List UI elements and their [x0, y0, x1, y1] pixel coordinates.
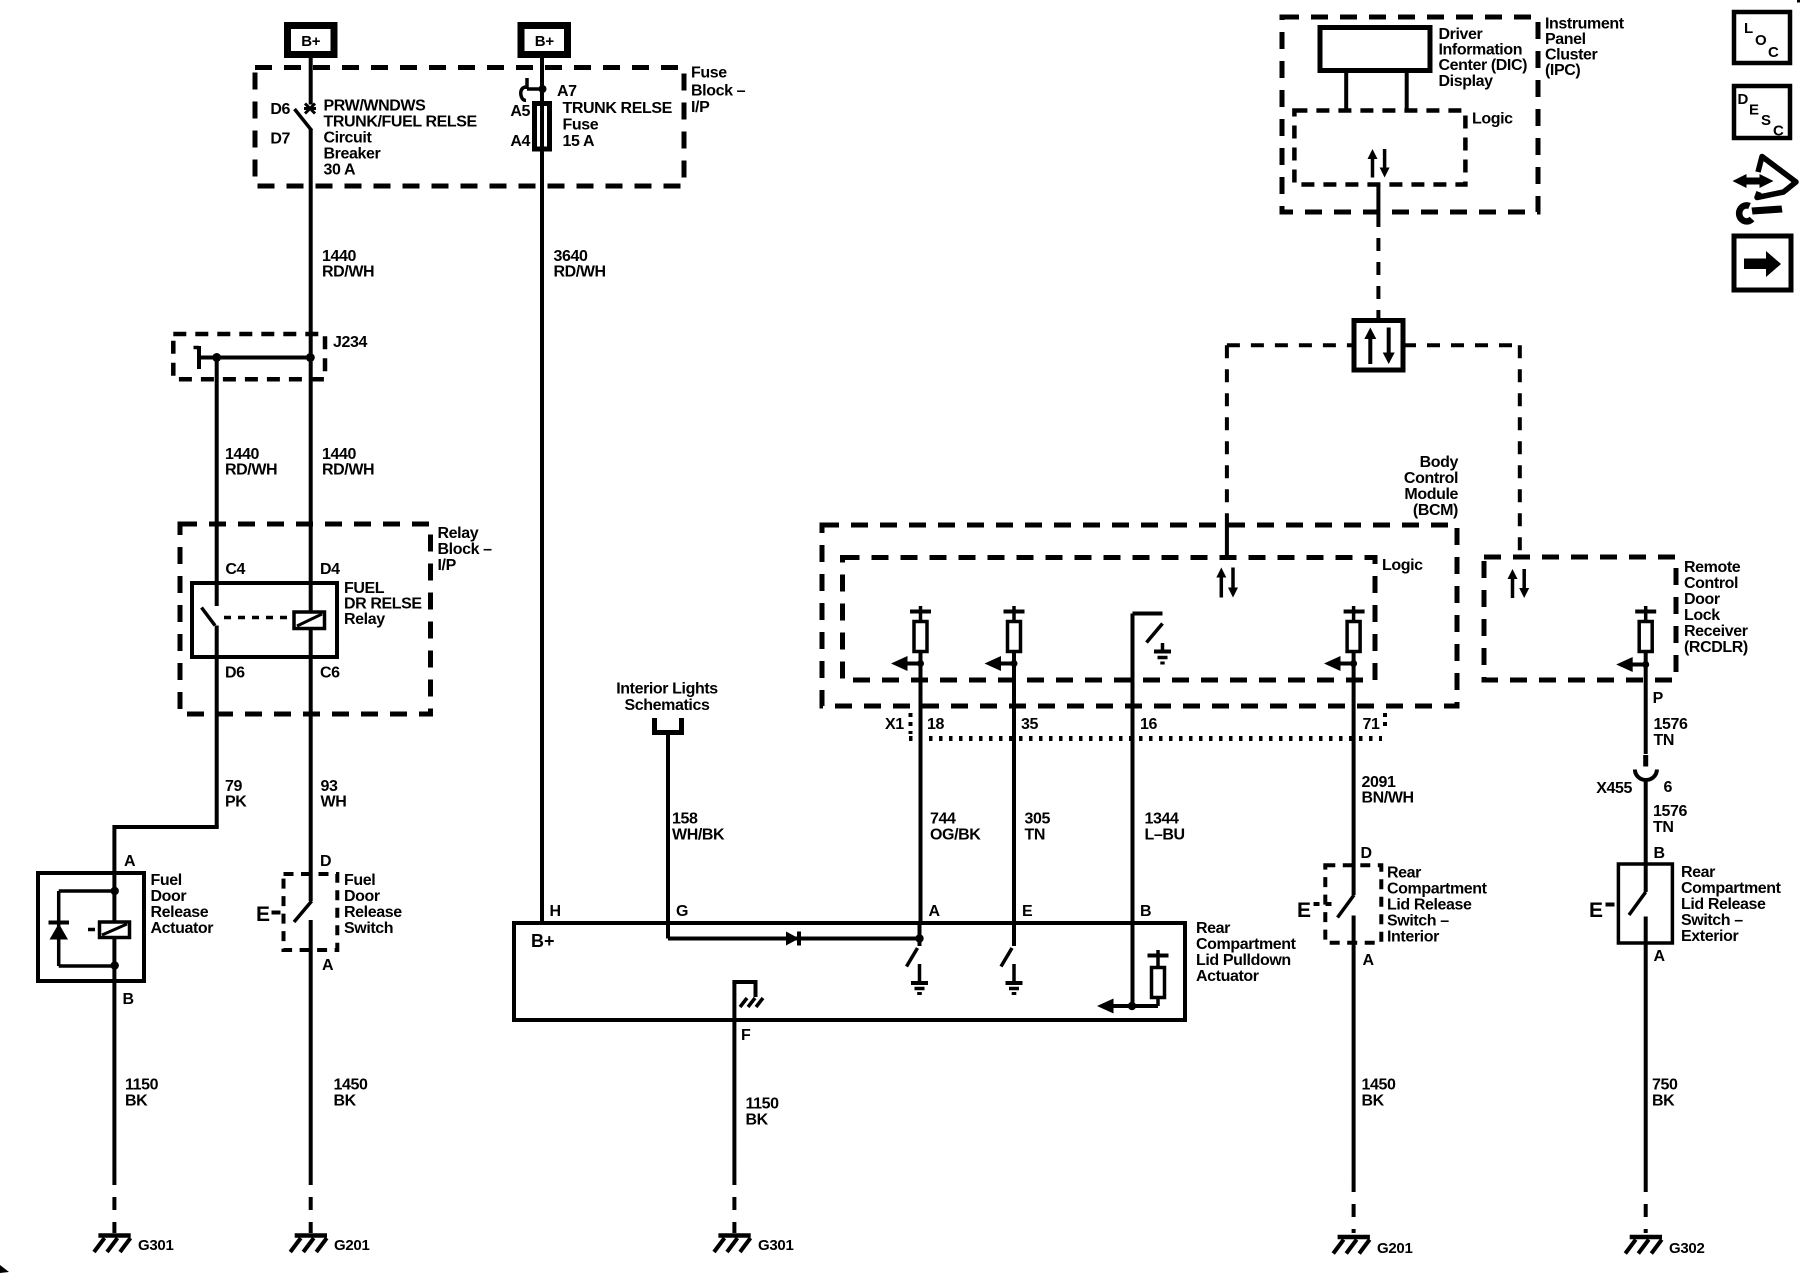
svg-text:1344: 1344 — [1145, 811, 1179, 828]
svg-text:Compartment: Compartment — [1196, 936, 1297, 953]
svg-text:PRW/WNDWS: PRW/WNDWS — [324, 98, 427, 115]
rear compartment lid pulldown actuator box — [514, 923, 1185, 1020]
internal switch A to ground — [907, 923, 929, 994]
BCM internal switch to ground pin 16 — [1133, 614, 1172, 664]
off-page bracket — [652, 718, 684, 733]
svg-text:Module: Module — [1404, 486, 1458, 503]
svg-text:RD/WH: RD/WH — [322, 264, 374, 281]
svg-text:BK: BK — [1362, 1093, 1385, 1110]
actuator coil — [88, 922, 130, 938]
svg-text:S: S — [1761, 112, 1771, 129]
svg-text:PK: PK — [225, 794, 247, 811]
svg-text:Remote: Remote — [1684, 559, 1741, 576]
svg-text:1150: 1150 — [125, 1077, 159, 1094]
svg-text:TRUNK/FUEL RELSE: TRUNK/FUEL RELSE — [324, 114, 478, 131]
svg-text:750: 750 — [1652, 1077, 1678, 1094]
svg-text:Door: Door — [151, 888, 187, 905]
svg-text:Fuel: Fuel — [344, 872, 375, 889]
svg-text:C4: C4 — [225, 561, 245, 578]
B+ power symbol (left) — [288, 26, 335, 55]
svg-text:Release: Release — [151, 904, 209, 921]
in-line connector X455 — [1635, 755, 1657, 864]
wire label 744 OG/BK — [930, 811, 981, 844]
svg-text:(BCM): (BCM) — [1413, 502, 1458, 519]
wire label 1440 RD/WH (left) — [225, 446, 277, 479]
switch E actuation — [1297, 899, 1332, 922]
svg-text:Schematics: Schematics — [625, 697, 710, 714]
svg-text:Center (DIC): Center (DIC) — [1439, 57, 1528, 74]
svg-text:Interior: Interior — [1387, 929, 1439, 946]
svg-text:B: B — [1140, 903, 1151, 920]
wire fuse down to pulldown actuator pin H — [540, 144, 544, 923]
svg-text:Circuit: Circuit — [324, 130, 373, 147]
svg-text:305: 305 — [1025, 811, 1051, 828]
wire label 3640 RD/WH — [554, 248, 606, 281]
BCM input arrow pin 71 — [1324, 656, 1357, 671]
dashed ground lead — [112, 1172, 116, 1233]
rear compartment lid release switch exterior box — [1618, 864, 1672, 943]
svg-text:Rear: Rear — [1387, 865, 1421, 882]
switch label exterior — [1681, 864, 1782, 945]
svg-text:Lid Release: Lid Release — [1387, 897, 1472, 914]
svg-text:A5: A5 — [510, 103, 530, 120]
wire label 1450 BK — [334, 1077, 368, 1110]
svg-text:G302: G302 — [1669, 1240, 1705, 1257]
connector X1 dotted line — [909, 736, 1382, 741]
svg-text:D: D — [320, 853, 331, 870]
wire label 93 WH — [321, 778, 347, 811]
svg-text:B+: B+ — [531, 931, 555, 951]
svg-text:Cluster: Cluster — [1545, 47, 1597, 64]
svg-text:Driver: Driver — [1439, 26, 1483, 43]
BCM pull-up resistor pin 71 — [1344, 606, 1365, 652]
BCM outer dashed box — [822, 525, 1457, 706]
label RCDLR — [1684, 559, 1748, 656]
svg-text:Switch –: Switch – — [1681, 912, 1743, 929]
svg-text:FUEL: FUEL — [344, 580, 385, 597]
svg-text:OG/BK: OG/BK — [930, 827, 981, 844]
wire RCDLR pin P down — [1644, 652, 1648, 755]
svg-text:D: D — [1738, 91, 1749, 108]
svg-text:A4: A4 — [510, 133, 530, 150]
svg-text:Panel: Panel — [1545, 31, 1586, 48]
svg-text:DR RELSE: DR RELSE — [344, 596, 422, 613]
svg-text:X455: X455 — [1596, 780, 1632, 797]
svg-text:G: G — [676, 903, 688, 920]
BCM logic dashed box — [843, 558, 1376, 681]
ground G201 (right) — [1333, 1237, 1412, 1257]
svg-text:Breaker: Breaker — [324, 146, 381, 163]
wire label 158 WH/BK — [672, 811, 725, 844]
svg-text:C6: C6 — [320, 665, 340, 682]
wire B+ to fuse — [540, 58, 544, 146]
svg-text:D: D — [1361, 845, 1372, 862]
wire BCM pin35 to actuator pin E — [1012, 652, 1016, 924]
wire label 1450 BK (right) — [1362, 1077, 1396, 1110]
ground G201 (left) — [290, 1236, 369, 1255]
wire bracket to actuator pin G — [666, 733, 670, 924]
actuator label — [1196, 920, 1297, 985]
IPC outer dashed box — [1282, 17, 1538, 212]
relay block I/P dashed box — [180, 524, 431, 714]
wire BCM pin18 to actuator pin A — [919, 652, 923, 924]
svg-text:Block –: Block – — [691, 83, 746, 100]
svg-text:D6: D6 — [270, 101, 290, 118]
svg-text:Lid Release: Lid Release — [1681, 896, 1766, 913]
svg-text:L: L — [1744, 20, 1753, 37]
label Relay Block - I/P — [438, 525, 493, 574]
B+ power symbol (middle) — [521, 26, 568, 55]
svg-text:TRUNK RELSE: TRUNK RELSE — [563, 100, 673, 117]
svg-text:Exterior: Exterior — [1681, 928, 1738, 945]
svg-text:A: A — [929, 903, 941, 920]
svg-text:Switch –: Switch – — [1387, 913, 1449, 930]
icon DESC box — [1734, 86, 1790, 140]
svg-text:Logic: Logic — [1472, 111, 1513, 128]
svg-text:BK: BK — [334, 1093, 357, 1110]
wire actuator F down — [732, 1020, 736, 1172]
switch E actuation — [1589, 899, 1615, 922]
ground G302 — [1625, 1237, 1704, 1257]
wire switch A down — [309, 920, 313, 1172]
svg-text:O: O — [1755, 32, 1767, 49]
circuit breaker PRW/WNDWS TRUNK/FUEL RELSE 30A — [295, 104, 317, 131]
svg-text:6: 6 — [1664, 779, 1673, 796]
fuel door release switch dashed box — [284, 874, 338, 950]
svg-text:G301: G301 — [758, 1237, 794, 1254]
svg-text:D6: D6 — [225, 665, 245, 682]
ground G301 (left) — [94, 1236, 174, 1255]
svg-text:I/P: I/P — [691, 99, 710, 116]
fuse TRUNK RELSE 15A — [535, 104, 550, 150]
svg-text:Rear: Rear — [1681, 864, 1715, 881]
svg-text:Display: Display — [1439, 73, 1494, 90]
svg-text:D7: D7 — [270, 131, 290, 148]
internal switch E to ground — [1001, 923, 1023, 994]
wire label 1576 TN (lower) — [1653, 803, 1687, 836]
wire J234 to relay C4 — [215, 358, 219, 607]
svg-text:16: 16 — [1140, 716, 1157, 733]
svg-text:3640: 3640 — [554, 248, 588, 265]
icon harness squiggle — [1733, 157, 1797, 222]
svg-text:Relay: Relay — [344, 611, 385, 628]
svg-text:A: A — [322, 957, 334, 974]
svg-text:WH: WH — [321, 794, 347, 811]
svg-text:D4: D4 — [320, 561, 340, 578]
svg-text:G301: G301 — [138, 1237, 174, 1254]
svg-text:A7: A7 — [557, 83, 577, 100]
svg-text:Lid Pulldown: Lid Pulldown — [1196, 952, 1291, 969]
connector X1 separator right — [1383, 713, 1387, 731]
junction box arrows — [1364, 328, 1394, 365]
svg-text:P: P — [1653, 690, 1664, 707]
internal wire G branch with diode — [668, 923, 924, 946]
label Fuse Block - I/P — [691, 65, 746, 117]
svg-text:A: A — [124, 853, 136, 870]
svg-text:18: 18 — [927, 716, 944, 733]
svg-text:WH/BK: WH/BK — [672, 827, 725, 844]
wire actuator B down — [112, 964, 116, 1172]
svg-text:J234: J234 — [333, 334, 367, 351]
svg-text:Actuator: Actuator — [151, 920, 214, 937]
DIC display legs — [1346, 71, 1407, 113]
switch blade — [1629, 864, 1646, 915]
switch blade — [294, 901, 312, 922]
switch E actuation — [256, 903, 281, 926]
actuator internal wire and loop — [59, 873, 119, 970]
wire label 1440 RD/WH (upper) — [322, 248, 374, 281]
svg-text:E: E — [1589, 899, 1603, 922]
svg-text:1440: 1440 — [322, 446, 356, 463]
svg-text:B+: B+ — [535, 33, 555, 50]
svg-text:RD/WH: RD/WH — [554, 264, 606, 281]
label Driver Information Center (DIC) Display — [1439, 26, 1528, 90]
dashed ground lead — [1352, 1179, 1356, 1233]
svg-text:G201: G201 — [334, 1237, 370, 1254]
svg-text:B: B — [123, 991, 134, 1008]
fuse block I/P dashed box — [255, 68, 684, 187]
relay switch blade — [202, 608, 216, 626]
svg-text:TN: TN — [1025, 827, 1046, 844]
svg-text:Compartment: Compartment — [1681, 880, 1782, 897]
actuator label — [151, 872, 214, 937]
svg-text:X1: X1 — [885, 716, 904, 733]
switch blade — [1338, 895, 1355, 918]
svg-text:Fuel: Fuel — [151, 872, 182, 889]
splice tap A7 — [521, 78, 547, 100]
label Instrument Panel Cluster (IPC) — [1545, 16, 1625, 80]
svg-text:1150: 1150 — [746, 1096, 780, 1113]
svg-text:Information: Information — [1439, 42, 1523, 59]
dashed serial data wire to junction box — [1376, 214, 1380, 318]
svg-text:C: C — [1768, 44, 1779, 61]
svg-text:RD/WH: RD/WH — [322, 462, 374, 479]
RCDLR dashed box — [1484, 557, 1676, 680]
svg-text:H: H — [550, 903, 561, 920]
svg-text:Control: Control — [1684, 575, 1738, 592]
svg-text:Switch: Switch — [344, 920, 393, 937]
actuator diode — [49, 923, 70, 940]
BCM input arrow pin 18 — [891, 656, 924, 671]
svg-text:G201: G201 — [1377, 1240, 1413, 1257]
svg-text:1450: 1450 — [1362, 1077, 1396, 1094]
relay FUEL DR RELSE outline — [192, 583, 337, 657]
wire label 750 BK — [1652, 1077, 1678, 1110]
relay label FUEL DR RELSE Relay — [344, 580, 422, 628]
svg-text:15 A: 15 A — [563, 133, 595, 150]
svg-text:1440: 1440 — [322, 248, 356, 265]
serial data junction box — [1354, 321, 1403, 371]
svg-text:Rear: Rear — [1196, 920, 1230, 937]
svg-text:1440: 1440 — [225, 446, 259, 463]
connector X1 separator — [909, 713, 913, 734]
svg-text:Actuator: Actuator — [1196, 968, 1259, 985]
relay coil — [294, 612, 325, 629]
svg-text:93: 93 — [321, 778, 338, 795]
svg-text:Compartment: Compartment — [1387, 881, 1488, 898]
svg-text:BN/WH: BN/WH — [1362, 790, 1414, 807]
RCDLR serial data arrows — [1508, 569, 1530, 598]
dashed serial data wire to RCDLR — [1403, 345, 1520, 556]
fuse label — [563, 100, 673, 150]
svg-text:I/P: I/P — [438, 557, 457, 574]
ground G301 (middle) — [714, 1236, 794, 1255]
wire relay D6 down with jog to actuator — [114, 626, 218, 876]
wire exterior switch down — [1644, 917, 1648, 1180]
svg-text:Body: Body — [1420, 454, 1459, 471]
svg-text:A: A — [1363, 952, 1375, 969]
splice J234 dashed box — [173, 334, 325, 379]
dashed ground lead — [732, 1172, 736, 1233]
IPC serial data arrows — [1368, 149, 1390, 178]
svg-text:F: F — [741, 1027, 751, 1044]
wire from B+ to circuit breaker — [309, 58, 313, 105]
svg-text:1576: 1576 — [1653, 803, 1687, 820]
page artifact mark bottom-left — [0, 1265, 9, 1273]
svg-text:Block –: Block – — [438, 541, 493, 558]
rear compartment lid release switch interior dashed box — [1325, 865, 1381, 942]
svg-text:E: E — [1297, 899, 1311, 922]
dashed ground lead — [309, 1172, 313, 1233]
dashed serial data wire to BCM — [1227, 345, 1354, 560]
svg-text:1450: 1450 — [334, 1077, 368, 1094]
relay actuation dashed link — [224, 616, 293, 620]
svg-text:Fuse: Fuse — [563, 117, 599, 134]
page artifact mark top-right — [1797, 0, 1800, 3]
svg-text:C: C — [1773, 123, 1784, 140]
internal resistor and arrow at pin B — [1097, 950, 1169, 1014]
wire label 1344 L-BU — [1145, 811, 1185, 844]
fuel door release actuator box — [38, 873, 144, 981]
svg-text:TN: TN — [1654, 732, 1675, 749]
label Body Control Module (BCM) — [1404, 454, 1459, 519]
node Interior Lights Schematics — [616, 681, 718, 715]
svg-text:Door: Door — [1684, 591, 1720, 608]
svg-text:Logic: Logic — [1382, 557, 1423, 574]
svg-text:E: E — [1022, 903, 1033, 920]
wire label 2091 BN/WH — [1362, 774, 1414, 807]
svg-text:RD/WH: RD/WH — [225, 462, 277, 479]
svg-text:Control: Control — [1404, 470, 1458, 487]
svg-text:744: 744 — [930, 811, 956, 828]
BCM pull-up resistor pin 35 — [1004, 606, 1025, 652]
switch label — [344, 872, 402, 937]
BCM pull-up resistor pin 18 — [910, 606, 931, 652]
svg-text:E: E — [256, 903, 270, 926]
svg-text:79: 79 — [225, 778, 242, 795]
wire D4 column through relay — [309, 358, 313, 902]
svg-text:Fuse: Fuse — [691, 65, 727, 82]
wire BCM pin16 to actuator pin B — [1131, 614, 1135, 1007]
svg-text:Interior Lights: Interior Lights — [616, 681, 718, 698]
circuit breaker label — [324, 98, 478, 179]
svg-text:BK: BK — [125, 1093, 148, 1110]
BCM serial data arrows — [1216, 568, 1238, 598]
svg-text:Door: Door — [344, 888, 380, 905]
splice bar inside J234 — [194, 346, 315, 369]
wire label 79 PK — [225, 778, 247, 811]
switch label interior — [1387, 865, 1488, 946]
wire label 1440 RD/WH (right) — [322, 446, 374, 479]
wire label 1150 BK — [125, 1077, 159, 1110]
svg-text:Lock: Lock — [1684, 607, 1720, 624]
wire label 1576 TN (upper) — [1654, 716, 1688, 749]
svg-text:30 A: 30 A — [324, 162, 356, 179]
svg-text:B: B — [1654, 845, 1665, 862]
svg-text:Instrument: Instrument — [1545, 16, 1625, 33]
svg-text:1576: 1576 — [1654, 716, 1688, 733]
svg-text:L–BU: L–BU — [1145, 827, 1185, 844]
RCDLR pull-up resistor — [1635, 606, 1656, 652]
wire BCM pin71 to interior switch — [1352, 652, 1356, 896]
svg-text:BK: BK — [746, 1112, 769, 1129]
svg-text:B+: B+ — [301, 33, 321, 50]
icon forward arrow box — [1734, 236, 1791, 290]
DIC display box — [1320, 28, 1430, 71]
internal chassis ground at pin F — [732, 980, 763, 1020]
svg-text:Release: Release — [344, 904, 402, 921]
serial data stub from IPC logic — [1376, 185, 1380, 215]
svg-text:(RCDLR): (RCDLR) — [1684, 639, 1748, 656]
svg-text:2091: 2091 — [1362, 774, 1396, 791]
svg-text:Receiver: Receiver — [1684, 623, 1748, 640]
wire breaker to J234 — [309, 129, 313, 358]
RCDLR output arrow — [1616, 657, 1649, 672]
svg-text:E: E — [1749, 102, 1759, 119]
svg-text:TN: TN — [1653, 819, 1674, 836]
svg-text:35: 35 — [1021, 716, 1038, 733]
dashed ground lead — [1644, 1179, 1648, 1233]
wire interior switch down — [1352, 916, 1356, 1180]
svg-text:71: 71 — [1363, 716, 1380, 733]
svg-text:BK: BK — [1652, 1093, 1675, 1110]
IPC logic dashed box — [1294, 111, 1465, 185]
svg-text:(IPC): (IPC) — [1545, 62, 1580, 79]
BCM input arrow pin 35 — [985, 656, 1018, 671]
icon LOC box — [1734, 12, 1790, 63]
wire label 1150 BK (middle) — [746, 1096, 780, 1129]
svg-text:158: 158 — [672, 811, 698, 828]
svg-text:Relay: Relay — [438, 525, 479, 542]
svg-text:A: A — [1654, 948, 1666, 965]
wire label 305 TN — [1025, 811, 1051, 844]
